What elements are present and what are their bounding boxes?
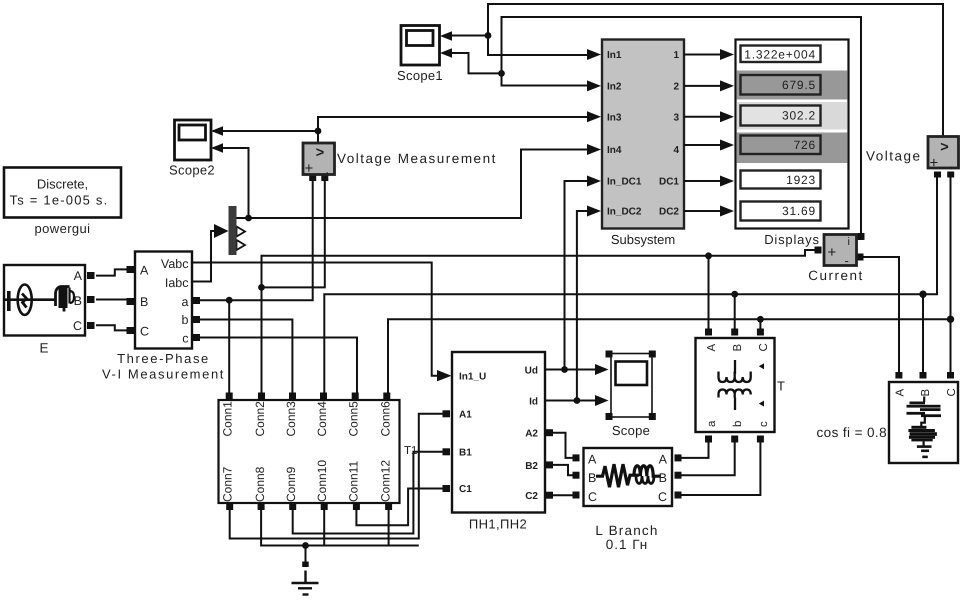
svg-text:A: A — [588, 453, 597, 467]
svg-text:T: T — [777, 379, 785, 394]
svg-text:Conn12: Conn12 — [379, 460, 393, 502]
svg-text:3: 3 — [673, 113, 679, 124]
svg-text:In2: In2 — [607, 82, 622, 93]
svg-text:Scope: Scope — [612, 423, 650, 438]
svg-text:Id: Id — [529, 397, 538, 408]
svg-text:cos fi = 0.8: cos fi = 0.8 — [817, 425, 887, 440]
svg-text:Discrete,: Discrete, — [37, 177, 88, 192]
svg-text:B: B — [732, 344, 744, 352]
svg-text:1.322e+004: 1.322e+004 — [744, 48, 816, 62]
svg-text:Conn5: Conn5 — [347, 401, 361, 437]
svg-text:c: c — [182, 332, 188, 346]
svg-text:Iabc: Iabc — [165, 276, 189, 290]
svg-text:A: A — [74, 269, 83, 283]
svg-text:A: A — [706, 344, 718, 352]
svg-text:C: C — [758, 343, 770, 351]
svg-text:C: C — [588, 490, 597, 504]
svg-text:>: > — [940, 140, 948, 156]
svg-text:C: C — [73, 319, 82, 333]
svg-text:C: C — [658, 490, 667, 504]
svg-text:2: 2 — [673, 82, 679, 93]
svg-text:C2: C2 — [525, 491, 538, 502]
svg-text:DC1: DC1 — [659, 177, 679, 188]
svg-text:Conn11: Conn11 — [347, 461, 361, 502]
svg-text:4: 4 — [673, 145, 679, 156]
svg-text:C: C — [140, 325, 149, 339]
svg-text:In_DC1: In_DC1 — [607, 177, 642, 188]
svg-text:In4: In4 — [607, 145, 622, 156]
svg-text:Conn6: Conn6 — [379, 401, 393, 437]
svg-text:Scope2: Scope2 — [169, 163, 215, 178]
svg-text:b: b — [732, 421, 744, 427]
svg-text:+: + — [930, 155, 939, 172]
svg-text:Three-Phase: Three-Phase — [117, 351, 210, 366]
svg-text:i: i — [848, 236, 850, 248]
svg-text:ПН1,ПН2: ПН1,ПН2 — [469, 517, 527, 532]
svg-text:a: a — [182, 295, 189, 309]
svg-text:In1_U: In1_U — [459, 372, 486, 383]
svg-text:B1: B1 — [459, 448, 472, 459]
svg-text:Vabc: Vabc — [161, 257, 189, 271]
svg-text:302.2: 302.2 — [782, 109, 816, 123]
svg-text:A2: A2 — [525, 429, 538, 440]
svg-text:,: , — [950, 157, 953, 171]
svg-text:Conn10: Conn10 — [315, 460, 329, 502]
svg-text:B: B — [920, 389, 932, 397]
svg-text:>: > — [316, 145, 324, 161]
svg-text:b: b — [182, 313, 189, 327]
svg-text:+: + — [828, 244, 837, 261]
svg-text:B2: B2 — [525, 461, 538, 472]
svg-text:Conn3: Conn3 — [284, 401, 298, 437]
svg-text:In1: In1 — [607, 50, 622, 61]
svg-text:Scope1: Scope1 — [397, 68, 443, 83]
svg-text:A: A — [659, 453, 668, 467]
svg-text:In3: In3 — [607, 113, 622, 124]
svg-text:B: B — [588, 471, 596, 485]
svg-text:V-I Measurement: V-I Measurement — [102, 367, 225, 382]
svg-text:Current: Current — [808, 268, 864, 283]
svg-text:E: E — [39, 341, 48, 356]
svg-text:a: a — [706, 420, 718, 427]
svg-text:T1: T1 — [404, 445, 417, 457]
svg-text:Ud: Ud — [525, 366, 538, 377]
svg-text:A1: A1 — [459, 410, 472, 421]
svg-text:Voltage Measurement: Voltage Measurement — [337, 151, 497, 166]
svg-text:powergui: powergui — [35, 221, 91, 236]
svg-text:Voltage: Voltage — [866, 149, 922, 164]
svg-text:1: 1 — [673, 50, 679, 61]
svg-text:726: 726 — [794, 138, 816, 152]
svg-text:DC2: DC2 — [659, 207, 679, 218]
svg-text:,: , — [326, 163, 329, 177]
svg-text:Subsystem: Subsystem — [611, 232, 675, 247]
svg-text:31.69: 31.69 — [782, 204, 816, 218]
svg-text:679.5: 679.5 — [782, 78, 816, 92]
svg-text:1923: 1923 — [786, 173, 816, 187]
svg-text:C: C — [946, 388, 958, 396]
svg-text:L Branch: L Branch — [595, 523, 658, 538]
svg-text:Displays: Displays — [764, 232, 820, 247]
svg-text:Conn7: Conn7 — [221, 466, 235, 502]
svg-text:Conn2: Conn2 — [253, 401, 267, 437]
svg-text:0.1 Гн: 0.1 Гн — [606, 537, 649, 552]
svg-text:A: A — [895, 389, 907, 397]
svg-text:Conn4: Conn4 — [315, 401, 329, 437]
svg-text:Conn9: Conn9 — [284, 466, 298, 502]
svg-text:Ts = 1e-005 s.: Ts = 1e-005 s. — [10, 193, 109, 208]
svg-text:-: - — [845, 253, 849, 268]
svg-text:A: A — [140, 264, 149, 278]
svg-text:C1: C1 — [459, 484, 472, 495]
svg-text:B: B — [659, 471, 667, 485]
svg-text:Conn1: Conn1 — [221, 401, 235, 437]
svg-text:+: + — [305, 160, 314, 177]
svg-text:In_DC2: In_DC2 — [607, 207, 642, 218]
svg-text:B: B — [140, 295, 148, 309]
svg-text:Conn8: Conn8 — [253, 466, 267, 502]
svg-text:c: c — [758, 421, 770, 427]
